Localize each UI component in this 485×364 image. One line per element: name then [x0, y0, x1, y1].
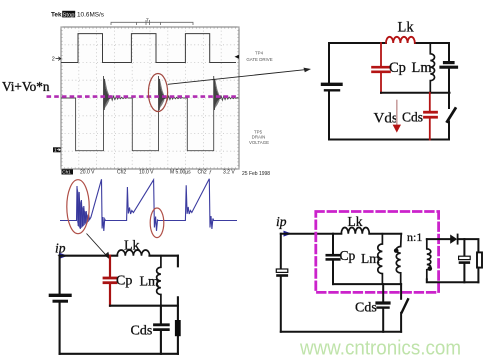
svg-text:www.cntronics.com: www.cntronics.com [299, 338, 461, 360]
inductor Lm [157, 256, 161, 306]
wire mid rail [333, 283, 401, 285]
scope header: Tek Stop 10.6MS/s [51, 11, 104, 19]
svg-text:Vds: Vds [374, 111, 398, 127]
diode D1 [450, 235, 457, 244]
right edge trigger marker [235, 55, 240, 59]
wire left rail [59, 256, 61, 354]
switch body (thick bar) [175, 320, 181, 336]
svg-text:Lk: Lk [348, 214, 363, 229]
svg-text:10.6MS/s: 10.6MS/s [77, 12, 104, 19]
svg-text:T: T [146, 17, 149, 22]
svg-text:2: 2 [52, 57, 55, 63]
arrow from waveform ellipse to Cp of bottom-left circuit [87, 234, 107, 257]
svg-text:25 Feb 1998: 25 Feb 1998 [242, 171, 270, 177]
svg-text:1: 1 [54, 148, 57, 154]
magenta dashed level line Vi+Vo*n [47, 95, 237, 98]
arrow from scope ellipse to converter circuit [168, 70, 306, 85]
svg-text:GATE DRIVE: GATE DRIVE [246, 57, 272, 62]
svg-text:M 5.00µs: M 5.00µs [170, 170, 191, 176]
dashed magenta box [316, 212, 439, 293]
ch1 ground marker [53, 147, 61, 152]
switch SW2 [400, 284, 402, 299]
capacitor Cp (red) [109, 256, 111, 277]
wire mid rail [381, 92, 450, 94]
svg-text:TP4: TP4 [255, 51, 264, 56]
scope graticule grid [61, 27, 239, 169]
blue primary-current waveform ip [60, 179, 237, 231]
output capacitor (right, black) [448, 43, 450, 61]
current arrow (blue) [284, 231, 292, 237]
capacitor Cds [160, 306, 162, 324]
svg-text:ƒ: ƒ [209, 171, 212, 176]
svg-text:Cp: Cp [340, 248, 356, 263]
load resistor [477, 252, 482, 267]
ch2 gate drive trace [61, 34, 236, 63]
current arrow (blue) [60, 253, 68, 259]
svg-text:n:1: n:1 [407, 230, 422, 244]
svg-text:VOLTAGE: VOLTAGE [249, 140, 269, 145]
svg-text:Vi+Vo*n: Vi+Vo*n [2, 79, 50, 94]
svg-text:Lk: Lk [398, 20, 415, 36]
scope background [61, 27, 239, 169]
capacitor Cp [332, 234, 334, 254]
svg-text:Cds: Cds [355, 301, 377, 316]
secondary polarity dot [428, 266, 433, 271]
svg-text:Lm: Lm [140, 275, 160, 290]
svg-text:Cp: Cp [116, 274, 132, 289]
red ellipse highlight on scope ringing [148, 74, 167, 112]
svg-text:Ch1: Ch1 [62, 170, 71, 175]
TP4 gate drive label [246, 51, 272, 62]
oscilloscope screenshot [47, 11, 273, 177]
wire bottom rail [60, 353, 178, 355]
svg-text:Lk: Lk [124, 239, 140, 254]
capacitor Cp (red) [380, 43, 382, 66]
switch SW1 [448, 93, 450, 108]
inductor Lm [378, 234, 383, 284]
inductor Lm [430, 43, 434, 93]
svg-text:DRAIN: DRAIN [252, 134, 266, 139]
scope border ticks [61, 27, 239, 169]
wire bottom rail [329, 139, 449, 141]
switch stub (open) [177, 256, 179, 267]
capacitor Cds (red) [429, 93, 431, 111]
wire left rail [280, 234, 282, 332]
svg-text:Cds: Cds [402, 110, 423, 125]
ringing burst fill [214, 78, 220, 110]
wire top rail [281, 233, 401, 235]
secondary bottom rail [427, 279, 479, 282]
ringing burst fill [159, 78, 165, 110]
red ellipse highlight on waveform (middle) [150, 208, 164, 238]
svg-text:10.0 V: 10.0 V [139, 170, 154, 176]
capacitor Cds [382, 284, 384, 301]
battery B2 [50, 294, 70, 297]
Vds arrow (red) [396, 101, 398, 126]
wire mid rail [110, 305, 178, 307]
switch lower wire [177, 297, 179, 354]
svg-text:Ch2: Ch2 [117, 170, 126, 176]
transformer secondary winding [427, 239, 431, 279]
secondary top wire [427, 239, 479, 252]
ringing burst fill [104, 78, 110, 110]
transformer primary winding [396, 234, 401, 284]
trigger acquisition bar [111, 20, 193, 25]
wire top rail [60, 255, 178, 257]
svg-text:Cp: Cp [389, 60, 406, 76]
red ellipse highlight on waveform (left) [67, 180, 89, 234]
input capacitor (electrolytic) [276, 269, 288, 272]
inductor Lk (red) [386, 37, 415, 43]
wire top rail [329, 42, 449, 44]
wire bottom rail [281, 331, 401, 333]
wire left rail [328, 43, 330, 140]
output capacitor (electrolytic) [463, 239, 465, 256]
ch1 drain voltage trace with ringing [61, 76, 239, 151]
battery B1 [323, 83, 342, 86]
svg-text:3.2 V: 3.2 V [223, 170, 235, 176]
svg-text:20.0 V: 20.0 V [80, 170, 95, 176]
svg-text:Stop:: Stop: [63, 12, 77, 18]
inductor Lk [341, 228, 369, 234]
svg-text:Lm: Lm [361, 251, 380, 266]
svg-text:Cds: Cds [131, 324, 153, 339]
primary polarity dot [394, 248, 399, 253]
svg-text:Tek: Tek [51, 12, 62, 19]
inductor Lk [117, 250, 149, 256]
svg-text:ip: ip [276, 214, 287, 229]
TP5 drain voltage label [249, 129, 269, 145]
svg-text:Lm: Lm [412, 60, 433, 76]
status bar: Ch1 box [62, 169, 74, 174]
dense ringing blob on waveform [77, 187, 89, 229]
svg-text:Ch2: Ch2 [198, 170, 207, 176]
